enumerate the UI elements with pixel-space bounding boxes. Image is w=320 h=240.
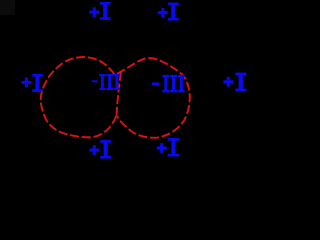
oxidation number +I (left H) <box>22 74 43 92</box>
oxidation number +I (right H) <box>223 73 246 92</box>
divider line through C-C bond (dashed red) <box>117 72 121 116</box>
oxidation number +I (bottom-right H) <box>157 138 180 156</box>
oxidation number -III (left C) <box>92 74 120 90</box>
oxidation number +I (top-right H) <box>158 3 179 21</box>
oxidation number -III (right C) <box>152 75 185 92</box>
oxidation number +I (bottom-left H) <box>89 140 111 158</box>
electron loop right (around C2, dashed red) <box>117 58 190 138</box>
oxidation number +I (top-left H) <box>89 2 110 20</box>
faint corner patch <box>0 0 15 15</box>
electron loop left (around C1, dashed red) <box>41 57 117 137</box>
